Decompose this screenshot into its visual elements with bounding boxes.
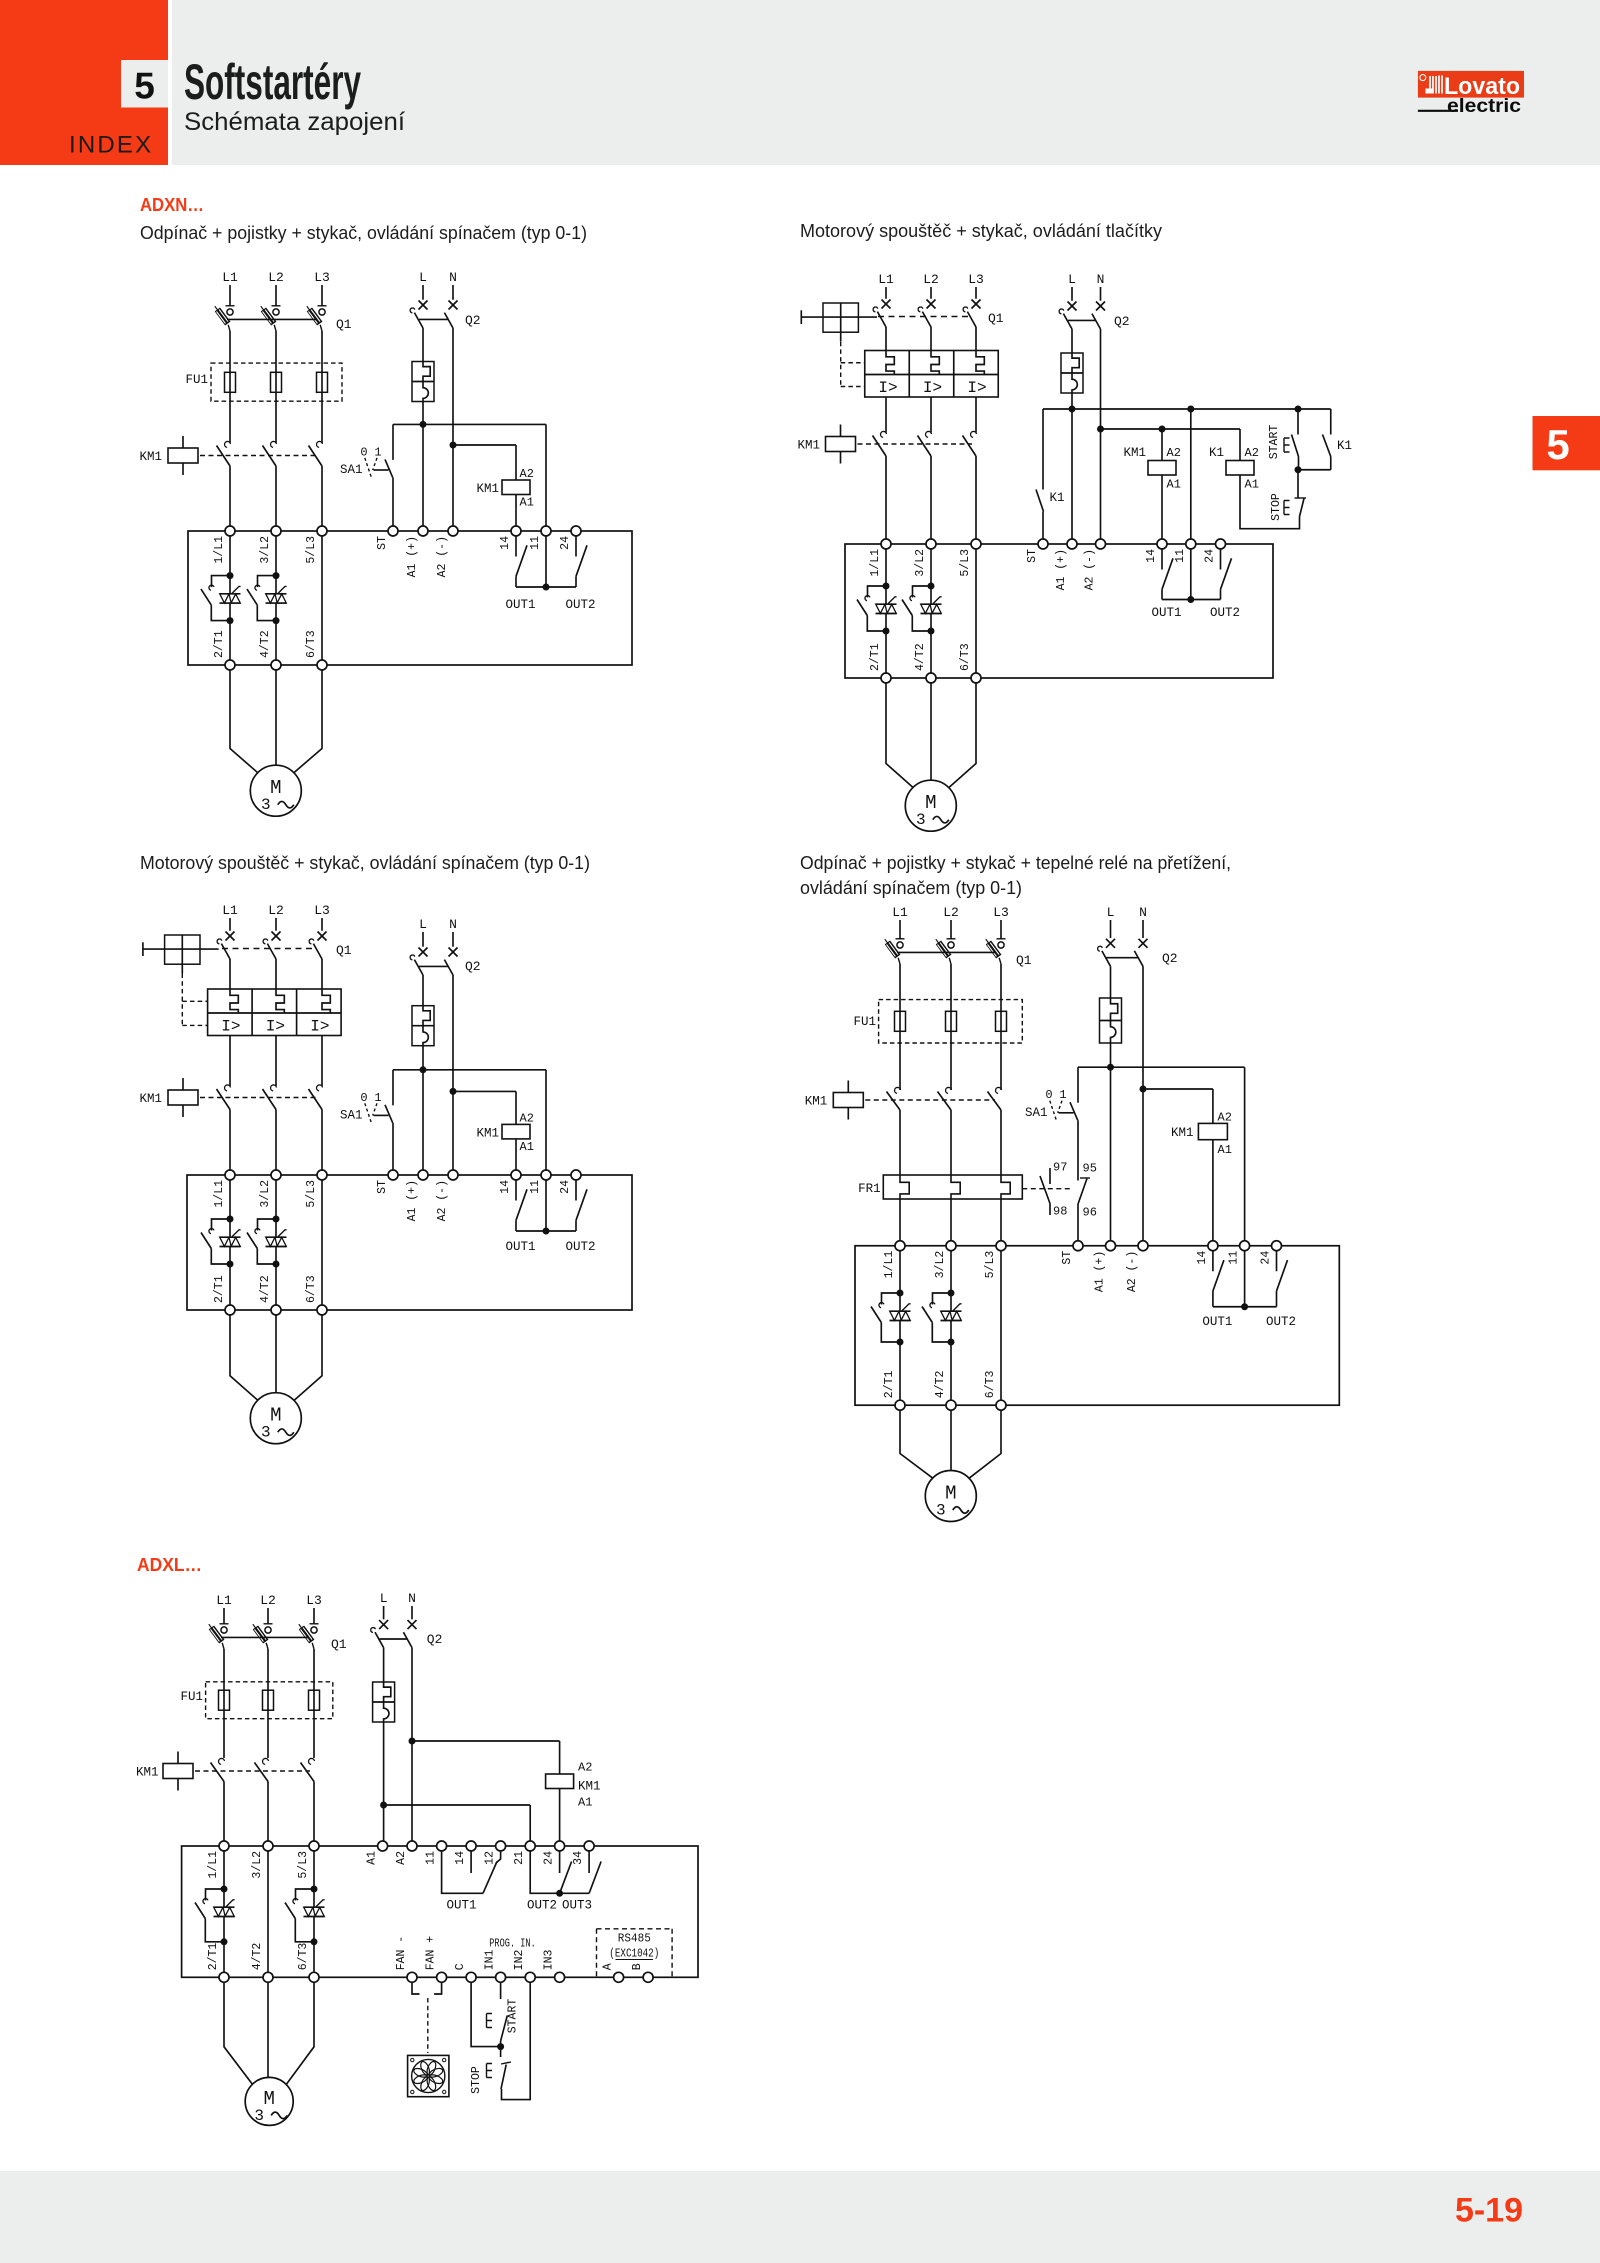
svg-text:4/T2: 4/T2 — [934, 1370, 947, 1398]
contactor KM1 main contact pole 3 D5 — [309, 1758, 315, 1764]
svg-text:L2: L2 — [260, 1593, 276, 1608]
svg-text:electric: electric — [1447, 96, 1521, 117]
svg-text:L3: L3 — [306, 1593, 322, 1608]
svg-text:11: 11 — [1174, 549, 1187, 563]
thyristor pair with bypass, phase at x=900 D4 — [897, 1290, 904, 1297]
terminal 1/L1 D5 — [219, 1841, 229, 1851]
svg-text:1/L1: 1/L1 — [883, 1251, 896, 1279]
disconnector Q1 pole L3 D4 — [997, 938, 1006, 940]
svg-text:Motorový spouštěč + stykač, ov: Motorový spouštěč + stykač, ovládání tla… — [800, 220, 1163, 241]
svg-text:FU1: FU1 — [185, 373, 208, 387]
terminal 6/T3 D3 — [317, 1305, 327, 1315]
svg-text:N: N — [449, 270, 457, 285]
svg-text:A1: A1 — [366, 1851, 379, 1865]
disconnector Q1 pole L3 D5 — [310, 1623, 319, 1625]
svg-text:14: 14 — [499, 1180, 512, 1194]
svg-text:L: L — [1068, 272, 1076, 287]
MCB thermal-magnetic element Q2 D5 — [373, 1682, 395, 1722]
wire pole 3 to starter input D5 — [313, 1782, 315, 1842]
svg-text:OUT2: OUT2 — [565, 598, 595, 612]
breaker Q2 linkage D5 — [380, 1638, 408, 1640]
breaker Q2 pole N D5 — [408, 1620, 417, 1629]
terminal 5/L3 D4 — [996, 1241, 1006, 1251]
wire L3 to fuse — [321, 331, 323, 443]
wire 2/T1 to motor D4 — [900, 1410, 933, 1478]
disconnector Q1 pole L1 D5 — [220, 1623, 229, 1625]
breaker Q2 pole N — [449, 301, 458, 310]
terminal A1 D5 — [378, 1841, 388, 1851]
terminal IN2 D5 — [525, 1972, 535, 1982]
contactor coil KM1 (control) D4 — [1198, 1123, 1227, 1139]
contactor coil KM1 (control) D3 — [502, 1124, 530, 1139]
pushbutton STOP D5 — [500, 2047, 502, 2057]
selector switch SA1 (0-1) D4 — [1077, 1067, 1079, 1103]
breaker Q2 linkage D4 — [1107, 957, 1139, 959]
svg-text:14: 14 — [1145, 549, 1158, 563]
terminal 11 D3 — [541, 1170, 551, 1180]
svg-text:1/L1: 1/L1 — [207, 1851, 220, 1879]
wire L2 to fuse — [275, 331, 277, 443]
svg-text:START: START — [1268, 425, 1281, 460]
terminal 24 D3 — [571, 1170, 581, 1180]
svg-text:K1: K1 — [1050, 491, 1065, 505]
svg-text:3/L2: 3/L2 — [914, 549, 927, 577]
terminal 11 D5 — [437, 1841, 447, 1851]
terminal IN1 D5 — [496, 1972, 506, 1982]
svg-text:L1: L1 — [216, 1593, 232, 1608]
contactor coil KM1 (control) D2 — [1161, 429, 1163, 461]
terminal 2/T1 D1 — [225, 660, 235, 670]
terminal 3/L2 D1 — [271, 526, 281, 536]
svg-text:OUT1: OUT1 — [446, 1899, 476, 1913]
contact K1 (start latch) to ST D2 — [1042, 409, 1044, 490]
FR1 contact 97-98 (NO) — [1049, 1168, 1051, 1184]
svg-text:STOP: STOP — [470, 2066, 483, 2094]
svg-text:5/L3: 5/L3 — [984, 1251, 997, 1279]
control rail from N D4 — [1143, 1088, 1213, 1090]
wire 6/T3 to motor — [294, 670, 322, 773]
svg-text:Q1: Q1 — [336, 317, 352, 332]
svg-text:L: L — [419, 917, 427, 932]
motor starter Q1 pole L2 — [927, 300, 936, 309]
contactor KM1 linkage D2 — [858, 443, 973, 445]
svg-text:A1: A1 — [1167, 478, 1181, 492]
svg-text:L1: L1 — [222, 270, 238, 285]
svg-text:N: N — [1097, 272, 1105, 287]
wire L2 to fuse D4 — [950, 964, 952, 1090]
motor starter Q1 pole L3 — [972, 300, 981, 309]
svg-text:6/T3: 6/T3 — [305, 630, 318, 658]
svg-text:3/L2: 3/L2 — [259, 536, 272, 564]
svg-text:OUT2: OUT2 — [1266, 1315, 1296, 1329]
wire L below MCB to terminal A1 D4 — [1110, 1043, 1112, 1241]
wire 6/T3 to motor D3 — [294, 1315, 322, 1400]
svg-text:PROG. IN.: PROG. IN. — [489, 1937, 536, 1951]
terminal ST D4 — [1073, 1241, 1083, 1251]
motor starter Q1 thermal/magnetic block Q1 D2 — [865, 351, 999, 398]
motor M1 3-phase D4 — [925, 1471, 976, 1522]
contactor KM1 main contact pole 3 D2 — [971, 431, 977, 437]
breaker Q2 pole L — [419, 301, 428, 310]
svg-text:3/L2: 3/L2 — [251, 1851, 264, 1879]
wire pole 3 to starter input — [321, 466, 323, 526]
svg-text:11: 11 — [425, 1851, 438, 1865]
contactor KM1 main contact pole 1 D5 — [219, 1758, 225, 1764]
svg-text:98: 98 — [1053, 1205, 1067, 1219]
terminal 4/T2 D4 — [946, 1400, 956, 1410]
svg-text:5: 5 — [1546, 421, 1569, 468]
wire inside starter — [229, 536, 231, 594]
contactor KM1 main contact pole 1 D3 — [225, 1085, 231, 1091]
svg-text:I>: I> — [221, 1018, 240, 1036]
wire inside starter D5 — [313, 1851, 315, 1907]
svg-text:L3: L3 — [993, 905, 1009, 920]
svg-text:ADXN…: ADXN… — [140, 195, 204, 215]
terminal ST D2 — [1038, 539, 1048, 549]
wire L below MCB to terminal A1 D5 — [383, 1722, 385, 1841]
svg-text:Q1: Q1 — [988, 311, 1004, 326]
wire SA1 to FR1 contact D4 — [1077, 1120, 1079, 1180]
terminal ST D1 — [388, 526, 398, 536]
wire pole 2 to starter input D5 — [267, 1782, 269, 1842]
svg-text:4/T2: 4/T2 — [259, 630, 272, 658]
terminal A2 (-) D1 — [448, 526, 458, 536]
svg-text:A1 (+): A1 (+) — [1094, 1251, 1107, 1292]
wire to starter input x=900 D4 — [899, 1199, 901, 1241]
svg-text:1: 1 — [374, 445, 381, 459]
wire pole 3 to KM1 contact D2 — [975, 397, 977, 433]
FR1 trip linkage dashed D4 — [1022, 1188, 1071, 1190]
terminal 6/T3 D1 — [317, 660, 327, 670]
contactor KM1 main contact pole 2 — [271, 441, 277, 447]
terminal 24 D4 — [1272, 1241, 1282, 1251]
disconnector Q1 linkage D4 — [897, 951, 995, 953]
svg-text:OUT2: OUT2 — [1210, 606, 1240, 620]
terminal 6/T3 D5 — [309, 1972, 319, 1982]
wire L below MCB to terminal A1 — [422, 402, 424, 527]
thyristor pair with bypass, phase at x=951 D4 — [948, 1290, 955, 1297]
wire pole 3 to KM1 contact D3 — [321, 1036, 323, 1087]
wire pole 1 to KM1 contact D3 — [229, 1036, 231, 1087]
contactor KM1 main contact pole 2 D4 — [946, 1087, 952, 1093]
svg-text:6/T3: 6/T3 — [959, 643, 972, 671]
terminal 5/L3 D3 — [317, 1170, 327, 1180]
wire rail to terminal 11 D4 — [1244, 1067, 1246, 1241]
contactor KM1 main contact pole 1 — [225, 441, 231, 447]
wire 4/T2 to motor D3 — [275, 1315, 277, 1393]
svg-text:FU1: FU1 — [180, 1690, 203, 1704]
terminal 1/L1 D2 — [881, 539, 891, 549]
relay contact OUT1 D1 — [515, 536, 517, 557]
soft starter box U1 D2 — [845, 544, 1273, 678]
terminal 21 D5 — [525, 1841, 535, 1851]
fan supply dashed wire D5 — [427, 1998, 429, 2053]
wire L3 to starter block — [975, 327, 977, 351]
relay contact OUT2 D3 — [575, 1180, 577, 1201]
svg-text:A1: A1 — [520, 1140, 534, 1154]
wire pole 1 to starter input D3 — [229, 1110, 231, 1171]
svg-text:M: M — [270, 1405, 281, 1427]
svg-text:Softstartéry: Softstartéry — [184, 54, 361, 110]
svg-text:OUT1: OUT1 — [1151, 606, 1181, 620]
svg-text:KM1: KM1 — [1171, 1126, 1194, 1140]
svg-text:L1: L1 — [892, 905, 908, 920]
contactor KM1 coil symbol — [182, 436, 184, 448]
terminal 11 D1 — [541, 526, 551, 536]
wire SA1 to terminal ST — [392, 478, 394, 527]
terminal 2/T1 D5 — [219, 1972, 229, 1982]
contact OUT3 D5 — [588, 1851, 590, 1873]
wire 5/L3 inside starter D4 — [1000, 1251, 1002, 1400]
wire pole 1 to starter input D5 — [223, 1782, 225, 1842]
wire L1 to fuse D4 — [899, 964, 901, 1090]
svg-text:OUT2: OUT2 — [527, 1899, 557, 1913]
wire 5/L3 inside starter D3 — [321, 1180, 323, 1305]
wire 4/T2 to motor D4 — [950, 1410, 952, 1470]
wire L3 to starter block D3 — [321, 959, 323, 989]
svg-text:M: M — [270, 777, 281, 799]
wire inside starter D3 — [275, 1180, 277, 1237]
wire L1 to fuse — [229, 331, 231, 443]
svg-text:3: 3 — [916, 811, 926, 829]
svg-text:L: L — [1107, 905, 1115, 920]
motor starter Q1 pole L1 — [882, 300, 891, 309]
contactor KM1 linkage — [200, 455, 318, 457]
wire pole 1 to KM1 contact D2 — [885, 397, 887, 433]
contactor KM1 coil symbol D2 — [840, 425, 842, 437]
svg-text:FR1: FR1 — [858, 1182, 881, 1196]
motor M1 3-phase — [250, 765, 301, 816]
svg-text:A2: A2 — [395, 1851, 408, 1865]
svg-text:ADXL…: ADXL… — [137, 1555, 202, 1575]
svg-text:A2 (-): A2 (-) — [1084, 549, 1097, 590]
contactor coil KM1 (control) D5 — [546, 1774, 574, 1789]
contactor KM1 coil symbol D5 — [177, 1752, 179, 1764]
relay contact OUT1 D3 — [515, 1180, 517, 1201]
wire pole 2 to starter input — [275, 466, 277, 526]
svg-text:L2: L2 — [943, 905, 959, 920]
thyristor pair with bypass, phase at x=886 D2 — [883, 583, 890, 590]
svg-text:L1: L1 — [878, 272, 894, 287]
wire rail to terminal 11 D2 — [1190, 409, 1192, 539]
svg-text:6/T3: 6/T3 — [297, 1943, 310, 1971]
wire pole 2 to KM1 contact D3 — [275, 1036, 277, 1087]
soft starter box U1 D5 — [182, 1846, 698, 1977]
disconnector Q1 pole L2 — [272, 305, 281, 307]
svg-text:A2 (-): A2 (-) — [436, 536, 449, 577]
Q1 mechanism dashed links D3 — [181, 974, 183, 1026]
svg-text:IN3: IN3 — [543, 1949, 556, 1970]
thyristor pair with bypass, phase at x=931 D2 — [928, 583, 935, 590]
svg-text:14: 14 — [454, 1851, 467, 1865]
svg-text:OUT1: OUT1 — [1202, 1315, 1232, 1329]
wire pole 3 to thermal relay D4 — [1000, 1110, 1002, 1175]
cooling fan D5 — [408, 2055, 449, 2096]
motor M1 3-phase D3 — [250, 1393, 301, 1444]
terminal 14 D4 — [1208, 1241, 1218, 1251]
motor starter Q1 pole L1 D3 — [226, 932, 235, 941]
wire to starter input x=951 D4 — [950, 1199, 952, 1241]
svg-text:A1 (+): A1 (+) — [1055, 549, 1068, 590]
terminal 14 D5 — [466, 1841, 476, 1851]
OUT common wire to terminal 11 D1 — [516, 586, 576, 588]
wire to starter input x=1001 D4 — [1000, 1199, 1002, 1241]
svg-text:A1: A1 — [1218, 1143, 1232, 1157]
svg-text:2/T1: 2/T1 — [883, 1370, 896, 1398]
svg-text:97: 97 — [1053, 1161, 1067, 1175]
terminal 5/L3 D2 — [971, 539, 981, 549]
terminal 1/L1 D1 — [225, 526, 235, 536]
relay contact OUT2 D1 — [575, 536, 577, 557]
svg-text:I>: I> — [266, 1018, 285, 1036]
terminal 3/L2 D2 — [926, 539, 936, 549]
svg-text:1/L1: 1/L1 — [213, 536, 226, 564]
contact OUT2 OUT3 common D5 — [530, 1851, 589, 1893]
contactor KM1 linkage D3 — [200, 1097, 318, 1099]
svg-text:Q2: Q2 — [465, 313, 481, 328]
svg-text:5/L3: 5/L3 — [297, 1851, 310, 1879]
svg-text:IN1: IN1 — [484, 1949, 497, 1970]
svg-text:L1: L1 — [222, 903, 238, 918]
svg-text:L3: L3 — [968, 272, 984, 287]
wire N to terminal A2 — [452, 328, 454, 526]
OUT common wire to terminal 11 D3 — [516, 1230, 576, 1232]
terminal 5/L3 D5 — [309, 1841, 319, 1851]
fuse set FU1 D5 — [206, 1682, 333, 1719]
terminal 34 D5 — [584, 1841, 594, 1851]
wire L below MCB to terminal A1 D3 — [422, 1046, 424, 1170]
contactor KM1 linkage D4 — [865, 1099, 995, 1101]
contactor KM1 main contact pole 2 D5 — [263, 1758, 269, 1764]
terminal 14 D2 — [1157, 539, 1167, 549]
header gray band — [172, 0, 1600, 165]
breaker Q2 linkage — [419, 318, 449, 320]
svg-text:SA1: SA1 — [1025, 1106, 1048, 1120]
wire L3 to fuse D4 — [1000, 964, 1002, 1090]
svg-text:I>: I> — [310, 1018, 329, 1036]
svg-text:A2: A2 — [1245, 446, 1259, 460]
wire inside starter D3 — [229, 1180, 231, 1237]
terminal A2 (-) D3 — [448, 1170, 458, 1180]
wire L to MCB D4 — [1110, 966, 1112, 998]
wire 6/T3 to motor D2 — [949, 683, 976, 788]
branch L to terminal 21 D5 — [384, 1804, 531, 1806]
svg-text:14: 14 — [1196, 1251, 1209, 1265]
svg-text:11: 11 — [1228, 1251, 1241, 1265]
breaker Q2 pole L D2 — [1068, 302, 1077, 311]
svg-text:KM1: KM1 — [476, 1126, 499, 1140]
svg-text:ST: ST — [1026, 549, 1039, 563]
fuse set FU1 D4 — [879, 1000, 1023, 1043]
svg-text:Motorový spouštěč + stykač, ov: Motorový spouštěč + stykač, ovládání spí… — [140, 852, 590, 873]
svg-text:ovládání spínačem (typ 0-1): ovládání spínačem (typ 0-1) — [800, 877, 1022, 898]
svg-text:21: 21 — [513, 1851, 526, 1865]
wire inside starter — [275, 536, 277, 594]
relay contact OUT2 D4 — [1276, 1251, 1278, 1272]
svg-text:KM1: KM1 — [578, 1780, 601, 1794]
thyristor pair phase 3 D5 — [311, 1886, 318, 1893]
svg-text:FU1: FU1 — [853, 1015, 876, 1029]
svg-text:SA1: SA1 — [340, 1108, 363, 1122]
svg-text:2/T1: 2/T1 — [213, 630, 226, 658]
wire N down to terminal A2 D2 — [1100, 329, 1102, 539]
wire 2/T1 to motor D5 — [224, 1982, 252, 2084]
Q1 pole linkage dashed — [878, 316, 968, 318]
terminal 2/T1 D3 — [225, 1305, 235, 1315]
contact OUT2 D5 — [559, 1851, 561, 1873]
svg-text:SA1: SA1 — [340, 463, 363, 477]
terminal 14 D3 — [511, 1170, 521, 1180]
svg-text:A2: A2 — [578, 1761, 592, 1775]
svg-text:KM1: KM1 — [136, 1766, 159, 1780]
OUT common wire to terminal 11 D2 — [1162, 599, 1221, 601]
terminal C D5 — [466, 1972, 476, 1982]
wire coil A1 to terminal 14 — [515, 495, 517, 527]
svg-text:L3: L3 — [314, 903, 330, 918]
terminal FAN + D5 — [437, 1972, 447, 1982]
thyristor pair phase 1 D5 — [221, 1886, 228, 1893]
wire coil A1 to terminal 14 D4 — [1212, 1140, 1214, 1241]
wire L2 to starter block D3 — [275, 959, 277, 989]
svg-text:A: A — [602, 1963, 615, 1970]
svg-text:A1 (+): A1 (+) — [406, 536, 419, 577]
wire L1 to fuse D5 — [223, 1649, 225, 1758]
wire 4/T2 to motor — [275, 670, 277, 765]
breaker Q2 linkage D3 — [419, 965, 449, 967]
terminal 4/T2 D1 — [271, 660, 281, 670]
disconnector Q1 linkage — [227, 318, 316, 320]
fuse set FU1 — [211, 363, 342, 401]
pushbutton START D2 — [1297, 409, 1299, 435]
soft starter box U1 D4 — [855, 1246, 1339, 1405]
motor starter Q1 pole L2 D3 — [272, 932, 281, 941]
terminal A1 (+) D4 — [1106, 1241, 1116, 1251]
terminal IN3 D5 — [555, 1972, 565, 1982]
terminal 24 D2 — [1216, 539, 1226, 549]
wire pole 3 to starter input D2 — [975, 456, 977, 539]
terminal 5/L3 D1 — [317, 526, 327, 536]
wire N to terminal A2 D3 — [452, 975, 454, 1170]
control rail N D2 — [1101, 428, 1241, 430]
svg-text:KM1: KM1 — [797, 439, 820, 453]
motor starter Q1 pole L3 D3 — [318, 932, 327, 941]
terminal 4/T2 D2 — [926, 673, 936, 683]
wire C to START D5 — [471, 1982, 501, 2046]
svg-text:24: 24 — [559, 1180, 572, 1194]
svg-text:KM1: KM1 — [476, 482, 499, 496]
svg-text:A1: A1 — [520, 496, 534, 510]
control rail from L — [393, 423, 546, 425]
terminal ST D3 — [388, 1170, 398, 1180]
svg-text:5/L3: 5/L3 — [959, 549, 972, 577]
breaker Q2 linkage D2 — [1068, 319, 1096, 321]
terminal 6/T3 D4 — [996, 1400, 1006, 1410]
svg-text:ST: ST — [376, 1180, 389, 1194]
wire SA1 to terminal ST D3 — [392, 1123, 394, 1170]
svg-text:INDEX: INDEX — [69, 132, 153, 159]
svg-text:0: 0 — [1045, 1088, 1052, 1102]
svg-text:OUT2: OUT2 — [565, 1240, 595, 1254]
svg-text:5: 5 — [134, 66, 155, 107]
svg-text:N: N — [408, 1591, 416, 1606]
contactor KM1 linkage D5 — [195, 1770, 310, 1772]
breaker Q2 pole L D3 — [419, 948, 428, 957]
svg-text:L2: L2 — [923, 272, 939, 287]
svg-text:A1: A1 — [578, 1796, 592, 1810]
svg-text:M: M — [945, 1483, 956, 1505]
wire rail to terminal 11 — [545, 424, 547, 526]
terminal 3/L2 D5 — [263, 1841, 273, 1851]
